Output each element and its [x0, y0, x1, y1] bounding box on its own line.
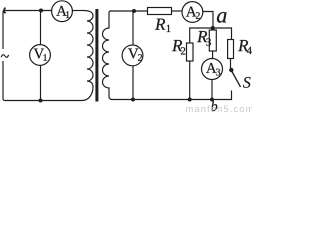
node b junction	[210, 98, 214, 102]
wire R3 to A3	[212, 51, 214, 59]
switch S label	[243, 77, 251, 88]
wire R1 to A2	[172, 10, 183, 12]
resistor R3 value label	[197, 31, 211, 46]
wire A3 lower stem	[211, 80, 213, 100]
voltmeter V1 label	[34, 49, 47, 61]
node a label	[217, 12, 227, 23]
wire A2 to corner above node a	[203, 12, 213, 29]
wire V1 upper stem	[40, 11, 42, 45]
node junction V2 top	[132, 9, 136, 13]
ammeter A3 label	[206, 63, 220, 75]
node junction V1 bottom	[39, 99, 43, 103]
wire V2 upper stem	[132, 11, 134, 45]
wire top-left horizontal	[5, 10, 53, 12]
voltmeter V2 label	[128, 49, 142, 61]
switch pivot dot	[229, 68, 233, 72]
watermark	[186, 105, 253, 112]
switch S blade	[231, 71, 240, 88]
voltmeter V1 circle	[30, 45, 51, 66]
transformer iron core	[95, 9, 98, 102]
node b label	[211, 101, 217, 111]
resistor R4 value label	[238, 40, 252, 54]
wire R2 lower stem	[189, 61, 191, 100]
ammeter A2 circle	[182, 2, 203, 23]
ammeter A3 circle	[202, 59, 223, 80]
ammeter A1 circle	[52, 1, 73, 22]
transformer secondary winding	[103, 11, 112, 100]
wire bottom right with corner up to switch contact	[112, 91, 232, 100]
wire V2 lower stem	[132, 66, 134, 100]
wire R4 to switch pivot	[230, 59, 232, 69]
wire A1 to transformer primary	[72, 10, 84, 12]
ammeter A1 label	[56, 6, 69, 18]
resistor R1 value label	[155, 19, 170, 32]
wire secondary top to R1	[110, 10, 148, 12]
node junction V1 top	[39, 9, 43, 13]
node junction V2 bottom	[131, 98, 135, 102]
node junction bus to R3	[211, 26, 215, 30]
AC source tilde symbol	[1, 55, 8, 58]
wire left vertical lower segment	[3, 61, 5, 101]
wire left vertical upper segment	[3, 11, 5, 50]
wire V1 lower stem	[40, 65, 42, 100]
node junction R2 bottom	[188, 98, 192, 102]
resistor R3 body	[209, 30, 216, 51]
resistor R2 body	[187, 43, 194, 61]
resistor R2 value label	[172, 40, 185, 54]
ammeter A2 label	[186, 7, 200, 19]
transformer primary winding	[82, 11, 93, 101]
wire bottom-left horizontal	[5, 100, 82, 102]
resistor R4 body	[228, 40, 234, 59]
AC source terminal hook	[4, 8, 6, 14]
resistor R1 body	[148, 8, 172, 15]
bus wire node a with corners down to R2 and R4	[190, 28, 232, 43]
voltmeter V2 circle	[122, 45, 143, 66]
